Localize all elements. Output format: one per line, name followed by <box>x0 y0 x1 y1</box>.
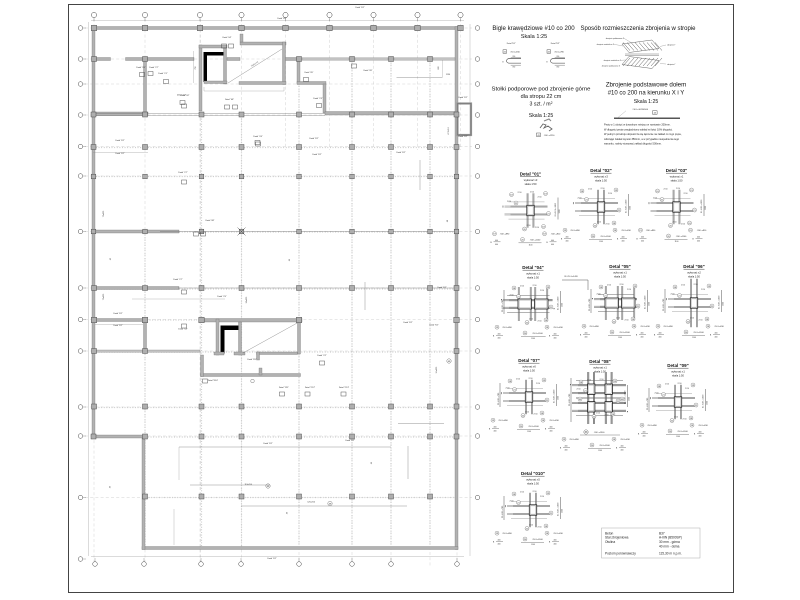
svg-text:2#10: 2#10 <box>597 222 601 224</box>
svg-text:2#10: 2#10 <box>518 192 522 194</box>
corridor wall x298 <box>297 59 300 84</box>
svg-text:1100: 1100 <box>527 431 531 433</box>
svg-text:2#10: 2#10 <box>627 289 631 291</box>
svg-text:91x250: 91x250 <box>436 366 438 373</box>
svg-text:Detal "K5": Detal "K5" <box>247 358 256 361</box>
svg-text:Pręty w 1 ułożyć w dowolnym mi: Pręty w 1 ułożyć w dowolnym miejscu w ro… <box>604 123 671 127</box>
svg-text:400: 400 <box>554 544 557 546</box>
svg-text:Detal "K2": Detal "K2" <box>551 42 560 45</box>
svg-text:2#10: 2#10 <box>600 379 604 381</box>
svg-text:21 #10 L=1200: 21 #10 L=1200 <box>624 390 626 404</box>
svg-text:2#10: 2#10 <box>699 320 703 322</box>
svg-text:400: 400 <box>551 244 554 246</box>
outer wall bottom <box>142 547 458 550</box>
svg-text:wykonać x5: wykonać x5 <box>526 478 540 482</box>
svg-text:400: 400 <box>494 431 497 433</box>
detail D05 <box>580 264 651 339</box>
column row y320 <box>91 317 459 322</box>
svg-text:2#10: 2#10 <box>538 321 542 323</box>
svg-text:Detal "010": Detal "010" <box>521 471 545 476</box>
detail D09 <box>638 363 709 438</box>
thin dim line y152.5 left <box>93 152 148 154</box>
svg-text:40 mm - dolna: 40 mm - dolna <box>659 545 680 549</box>
stair core 1 bottom wall <box>204 81 227 84</box>
svg-text:Detal "C6": Detal "C6" <box>136 66 145 69</box>
svg-text:2#10: 2#10 <box>694 284 698 286</box>
svg-text:1200: 1200 <box>629 206 631 210</box>
svg-text:2#10: 2#10 <box>510 295 514 297</box>
vertical grid lines <box>94 19 461 566</box>
column row y437 <box>91 434 459 439</box>
stair2 room right wall <box>298 319 301 354</box>
svg-text:400: 400 <box>659 337 662 339</box>
svg-text:2#10: 2#10 <box>620 284 624 286</box>
column row y59 <box>92 57 433 62</box>
svg-text:Sposób rozmieszczenia zbrojeni: Sposób rozmieszczenia zbrojenia w stropi… <box>580 26 696 32</box>
svg-text:2#10: 2#10 <box>683 419 687 421</box>
svg-text:#10 L=890: #10 L=890 <box>569 439 579 441</box>
svg-text:2#10: 2#10 <box>685 388 689 390</box>
long thin dim lines lower area <box>179 446 391 448</box>
circled ref numbers on plan <box>110 219 451 506</box>
svg-text:21 #10 L=1200: 21 #10 L=1200 <box>718 295 720 309</box>
room stub up <box>240 34 243 42</box>
svg-text:skala 1:50: skala 1:50 <box>614 275 626 279</box>
stair2 connector walls to left wall <box>95 319 145 322</box>
svg-text:#10 L=890: #10 L=890 <box>647 425 657 427</box>
svg-text:#10 L=890: #10 L=890 <box>570 230 580 232</box>
svg-text:Skala 1:25: Skala 1:25 <box>634 99 659 105</box>
svg-text:2#10: 2#10 <box>676 188 680 190</box>
extra bottom dim for D08 <box>580 430 620 435</box>
svg-text:#10 L=810: #10 L=810 <box>640 326 650 328</box>
svg-text:wykonać x1: wykonać x1 <box>671 370 685 374</box>
svg-text:Detal "K2": Detal "K2" <box>277 17 286 20</box>
stair2 interior wall y354 <box>257 352 298 355</box>
interior wall x200 <box>199 45 202 111</box>
svg-text:W długości pręta uwzględniono: W długości pręta uwzględniono zakład w i… <box>604 127 673 131</box>
stair core 1 black flight wall <box>204 52 225 56</box>
svg-text:Detal "K2": Detal "K2" <box>458 96 467 99</box>
svg-text:skala 1:50: skala 1:50 <box>671 179 683 183</box>
svg-text:Detal "C12": Detal "C12" <box>305 386 316 389</box>
svg-text:#10 L=10250/500: #10 L=10250/500 <box>632 109 649 111</box>
svg-text:50 #10 L=780: 50 #10 L=780 <box>502 505 504 518</box>
svg-text:50 #10 L=780: 50 #10 L=780 <box>663 298 665 311</box>
svg-text:Poziom porównawczy: Poziom porównawczy <box>605 552 636 556</box>
svg-text:21 #10 L=1200: 21 #10 L=1200 <box>625 199 627 213</box>
shaft on right wall <box>458 104 472 136</box>
svg-text:2#10: 2#10 <box>510 501 514 503</box>
svg-text:50 #10 L=780: 50 #10 L=780 <box>498 392 500 405</box>
svg-text:2#10: 2#10 <box>625 320 629 322</box>
svg-text:zbrojenie Y: zbrojenie Y <box>667 63 676 66</box>
wall y288 left segment <box>93 287 179 290</box>
svg-text:400: 400 <box>585 337 588 339</box>
interior wall x145 <box>144 58 147 116</box>
svg-text:21 #10 L=1200: 21 #10 L=1200 <box>553 389 555 403</box>
lower room notch <box>259 368 262 375</box>
svg-text:75x250: 75x250 <box>103 210 105 217</box>
wall step at row 436 <box>93 435 145 438</box>
svg-text:390: 390 <box>556 67 559 69</box>
svg-text:2#10: 2#10 <box>681 224 685 226</box>
svg-text:Detal "D10": Detal "D10" <box>208 379 219 382</box>
svg-text:21 #10 L=1200: 21 #10 L=1200 <box>701 199 703 213</box>
extra bar for D05 <box>562 276 588 290</box>
svg-text:#10 L=1100: #10 L=1100 <box>599 445 610 447</box>
beam wall y113 right part <box>325 112 455 116</box>
svg-text:Detal "K1": Detal "K1" <box>507 42 516 45</box>
svg-text:Detal "K2": Detal "K2" <box>309 137 318 140</box>
column row y499 <box>143 494 433 499</box>
svg-text:400: 400 <box>566 241 569 243</box>
svg-text:#10 L=810: #10 L=810 <box>620 439 630 441</box>
detail D06 <box>654 264 725 339</box>
stair2 black flight wall <box>221 326 240 331</box>
svg-text:#10 L=1100: #10 L=1100 <box>619 332 630 334</box>
svg-text:#10 L=810: #10 L=810 <box>698 425 708 427</box>
svg-text:#10 co 200 na kierunku X i Y: #10 co 200 na kierunku X i Y <box>608 91 685 97</box>
svg-text:2#10: 2#10 <box>577 389 581 391</box>
svg-text:50 #10 L=780: 50 #10 L=780 <box>647 397 649 410</box>
svg-text:2#10: 2#10 <box>533 285 537 287</box>
svg-text:Detal "08": Detal "08" <box>225 98 234 101</box>
stair core 1 right wall <box>224 48 227 84</box>
room wall top right of stair1 <box>240 42 286 45</box>
column row y288 <box>92 286 460 291</box>
svg-text:#10 L=810: #10 L=810 <box>549 420 559 422</box>
svg-text:26 #10 L=1420: 26 #10 L=1420 <box>564 276 578 278</box>
vertical hatch bands on slab strips <box>145 60 430 546</box>
svg-text:Detal "02": Detal "02" <box>590 168 612 173</box>
column row y115 <box>91 112 459 117</box>
svg-text:2#10: 2#10 <box>678 383 682 385</box>
svg-text:#10 L=890: #10 L=890 <box>646 230 656 232</box>
detail D01 <box>490 172 561 247</box>
svg-text:#10 L=890: #10 L=890 <box>502 327 512 329</box>
svg-text:2#10: 2#10 <box>673 222 677 224</box>
svg-text:2#10: 2#10 <box>540 290 544 292</box>
svg-text:Detal "K2": Detal "K2" <box>437 286 446 289</box>
bigiel detail K1 <box>502 42 521 69</box>
svg-text:2#10: 2#10 <box>655 393 659 395</box>
grid bubbles bottom row <box>93 558 460 566</box>
svg-text:2#10: 2#10 <box>605 415 609 417</box>
svg-text:zbrojenie rozdzielcze X: zbrojenie rozdzielcze X <box>604 59 622 62</box>
stair2 left wall <box>216 319 219 355</box>
detail D010 <box>493 471 564 546</box>
svg-text:2#10: 2#10 <box>538 197 542 199</box>
svg-text:#10 L=810: #10 L=810 <box>510 52 520 54</box>
svg-text:1100: 1100 <box>676 436 680 438</box>
svg-text:1200: 1200 <box>628 397 630 401</box>
svg-text:75x250: 75x250 <box>103 293 105 300</box>
svg-text:2#10: 2#10 <box>520 492 524 494</box>
svg-text:Detal "07": Detal "07" <box>518 358 540 363</box>
svg-text:50 #10 L=780: 50 #10 L=780 <box>569 393 571 406</box>
svg-text:#10 L=1100: #10 L=1100 <box>530 239 541 241</box>
svg-text:Detal "09": Detal "09" <box>364 69 373 72</box>
svg-text:#10 L=810: #10 L=810 <box>551 234 561 236</box>
detail D07 <box>489 358 560 433</box>
svg-text:2#10: 2#10 <box>664 189 668 191</box>
svg-text:Detal "06": Detal "06" <box>683 264 705 269</box>
svg-text:skala 1:50: skala 1:50 <box>595 179 607 183</box>
svg-text:1200: 1200 <box>561 509 563 513</box>
svg-text:Detal "C2": Detal "C2" <box>317 354 326 357</box>
svg-text:400: 400 <box>699 436 702 438</box>
svg-text:Detal "08": Detal "08" <box>206 219 215 222</box>
svg-text:2#10: 2#10 <box>506 388 510 390</box>
svg-text:Bigle krawędziowe #10 co 200: Bigle krawędziowe #10 co 200 <box>492 25 575 32</box>
svg-text:2#10: 2#10 <box>530 192 534 194</box>
svg-text:Detal "C1": Detal "C1" <box>158 72 167 75</box>
svg-text:#10 L=810: #10 L=810 <box>553 533 563 535</box>
svg-text:21 #10 L=1200: 21 #10 L=1200 <box>557 296 559 310</box>
svg-text:wliczając zakład wynosi 350mm,: wliczając zakład wynosi 350mm, a w przyp… <box>604 137 680 141</box>
svg-text:2#10: 2#10 <box>607 384 611 386</box>
svg-text:Otulina: Otulina <box>605 540 615 544</box>
svg-text:skala 1:50: skala 1:50 <box>688 275 700 279</box>
svg-text:1100: 1100 <box>531 544 535 546</box>
svg-text:#10 L=890: #10 L=890 <box>589 326 599 328</box>
stair2 mid wall <box>239 322 242 355</box>
svg-text:1100: 1100 <box>598 450 602 452</box>
grid bubbles right column <box>475 26 480 500</box>
svg-text:2#10: 2#10 <box>533 491 537 493</box>
svg-text:Stal zbrojeniowa: Stal zbrojeniowa <box>605 536 629 540</box>
svg-text:400: 400 <box>554 338 557 340</box>
svg-text:2#10: 2#10 <box>653 198 657 200</box>
svg-text:#10 L=810: #10 L=810 <box>714 326 724 328</box>
svg-text:2#10: 2#10 <box>588 189 592 191</box>
svg-text:zbrojenie podstawowe X: zbrojenie podstawowe X <box>602 64 621 67</box>
svg-text:1200: 1200 <box>705 206 707 210</box>
stair core 2 top wall <box>199 319 302 323</box>
svg-text:Detal "K2": Detal "K2" <box>396 151 405 154</box>
svg-text:47 2#12: 47 2#12 <box>448 127 450 135</box>
svg-text:125x250: 125x250 <box>307 502 316 504</box>
svg-text:1100: 1100 <box>618 337 622 339</box>
svg-text:2#10: 2#10 <box>674 417 678 419</box>
NE interior dim line <box>397 77 443 79</box>
svg-text:2#10: 2#10 <box>516 379 520 381</box>
column row y176 <box>91 174 459 179</box>
svg-text:400: 400 <box>622 241 625 243</box>
header: Zbrojenie podstawowe dolem <box>606 82 686 106</box>
margin dimension lines <box>88 22 90 556</box>
svg-text:Detal "K2": Detal "K2" <box>403 321 412 324</box>
svg-text:400: 400 <box>715 337 718 339</box>
svg-text:skala 1:50: skala 1:50 <box>525 182 537 186</box>
stair2 feet <box>214 352 224 355</box>
svg-text:400: 400 <box>643 436 646 438</box>
svg-text:#10 L=1100: #10 L=1100 <box>676 236 687 238</box>
svg-text:wykonać x3: wykonać x3 <box>524 178 538 182</box>
room right wall <box>283 42 286 85</box>
svg-text:21 #10 L=1200: 21 #10 L=1200 <box>702 394 704 408</box>
svg-text:Detal "K2": Detal "K2" <box>115 152 124 155</box>
svg-text:21 #10 L=1200: 21 #10 L=1200 <box>555 202 557 216</box>
svg-text:#10 L=1300: #10 L=1300 <box>594 432 606 434</box>
corridor wall y83 <box>297 82 326 85</box>
svg-text:#10 L=890: #10 L=890 <box>663 326 673 328</box>
svg-text:400: 400 <box>550 431 553 433</box>
svg-text:Detal "K2": Detal "K2" <box>429 324 438 327</box>
svg-text:zbrojenie rozdzielcze X: zbrojenie rozdzielcze X <box>597 43 615 46</box>
svg-text:1200: 1200 <box>561 303 563 307</box>
svg-text:Detal "C9": Detal "C9" <box>217 295 226 298</box>
svg-text:2#10: 2#10 <box>534 414 538 416</box>
svg-text:Detal "K2": Detal "K2" <box>267 557 276 560</box>
notes paragraph <box>604 123 682 146</box>
svg-text:2#10: 2#10 <box>536 383 540 385</box>
grid bubbles left column <box>78 26 86 562</box>
svg-text:Detal "05": Detal "05" <box>609 264 631 269</box>
svg-text:Detal "K2": Detal "K2" <box>345 439 354 442</box>
svg-text:W pełnym przekroju dopuszcza s: W pełnym przekroju dopuszcza się łączeni… <box>604 132 682 136</box>
outer wall lower-left vertical <box>142 436 145 550</box>
svg-text:2#10: 2#10 <box>540 496 544 498</box>
plan detail labels <box>113 6 467 560</box>
rotated dim texts on plan <box>103 65 450 514</box>
svg-text:2#10: 2#10 <box>681 285 685 287</box>
svg-text:400: 400 <box>498 544 501 546</box>
svg-text:Skala 1:25: Skala 1:25 <box>529 113 554 119</box>
svg-text:2#10: 2#10 <box>529 319 533 321</box>
corridor wall x323 <box>323 84 326 113</box>
svg-text:1200: 1200 <box>557 396 559 400</box>
stair core 1 top wall <box>199 45 227 48</box>
svg-text:zbrojenie podstawowe X: zbrojenie podstawowe X <box>606 37 625 40</box>
svg-text:21 #10 L=1200: 21 #10 L=1200 <box>644 295 646 309</box>
svg-text:2#10: 2#10 <box>608 193 612 195</box>
beam wall y113 left part <box>93 112 149 116</box>
column row y28 (top wall) <box>91 25 463 30</box>
svg-text:#10 L=890: #10 L=890 <box>500 234 510 236</box>
svg-text:Detal "C3": Detal "C3" <box>313 97 322 100</box>
svg-text:#10 L=1100: #10 L=1100 <box>532 539 543 541</box>
svg-text:2#10: 2#10 <box>596 413 600 415</box>
svg-text:2#10: 2#10 <box>587 380 591 382</box>
lower room bottom wall y375 <box>201 374 301 377</box>
outer wall left <box>92 27 95 439</box>
svg-text:Detal "03": Detal "03" <box>666 168 688 173</box>
svg-text:2#10: 2#10 <box>701 289 705 291</box>
detail D03 <box>636 168 707 243</box>
svg-text:warunku, należy stosować zakła: warunku, należy stosować zakład długości… <box>604 142 662 146</box>
grid bubbles top row <box>91 12 463 21</box>
svg-text:zbrojenie Y: zbrojenie Y <box>667 44 676 47</box>
svg-text:Detal "C13": Detal "C13" <box>339 386 350 389</box>
svg-text:400: 400 <box>621 450 624 452</box>
svg-text:Detal "04": Detal "04" <box>522 265 544 270</box>
svg-text:wykonać x3: wykonać x3 <box>594 175 608 179</box>
materials table <box>602 528 701 558</box>
svg-text:wykonać x1: wykonać x1 <box>593 366 607 370</box>
svg-text:3 szt. / m2: 3 szt. / m2 <box>530 101 553 108</box>
detail D02 <box>561 168 632 243</box>
svg-text:#10 L=1250: #10 L=1250 <box>544 135 556 137</box>
svg-text:#10 L=1100: #10 L=1100 <box>528 426 539 428</box>
svg-text:400: 400 <box>641 337 644 339</box>
svg-text:Detal "01": Detal "01" <box>520 172 542 177</box>
plan detail marker boxes <box>140 44 357 396</box>
svg-text:#10 L=1100: #10 L=1100 <box>600 236 611 238</box>
svg-text:#10 L=1100: #10 L=1100 <box>693 332 704 334</box>
svg-text:30 mm - górna: 30 mm - górna <box>659 540 680 544</box>
svg-text:Detal "C7": Detal "C7" <box>178 171 187 174</box>
svg-text:#10 L=1100: #10 L=1100 <box>532 333 543 335</box>
svg-text:Detal "08": Detal "08" <box>589 359 611 364</box>
svg-text:Detal "K2": Detal "K2" <box>355 6 364 9</box>
svg-text:#10 L=810: #10 L=810 <box>621 230 631 232</box>
svg-text:wykonać x6: wykonać x6 <box>522 365 536 369</box>
svg-text:A-IIIN (B500SP): A-IIIN (B500SP) <box>659 536 682 540</box>
svg-text:115,30 m n.p.m.: 115,30 m n.p.m. <box>659 552 682 556</box>
outer wall right <box>455 27 458 550</box>
svg-text:#10 L=810: #10 L=810 <box>697 230 707 232</box>
svg-text:Zbrojenie podstawowe dołem: Zbrojenie podstawowe dołem <box>606 82 686 89</box>
isometric rebar arrangement sketch <box>597 37 677 69</box>
svg-text:90x250: 90x250 <box>246 296 248 303</box>
svg-text:Detal "05": Detal "05" <box>305 71 314 74</box>
svg-text:skala 1:50: skala 1:50 <box>527 276 539 280</box>
column row y408 <box>92 404 460 409</box>
svg-text:2#10: 2#10 <box>529 525 533 527</box>
svg-text:400: 400 <box>495 244 498 246</box>
diagonal of room (wiatrolap) <box>228 49 282 83</box>
svg-text:Detal "09": Detal "09" <box>667 363 689 368</box>
svg-text:1100: 1100 <box>675 241 679 243</box>
svg-text:2#10: 2#10 <box>597 294 601 296</box>
header: Stolki podporowe <box>492 87 592 120</box>
interior wall row y59 <box>93 58 455 61</box>
svg-text:2#10: 2#10 <box>665 384 669 386</box>
svg-text:400: 400 <box>498 338 501 340</box>
svg-text:1100: 1100 <box>599 241 603 243</box>
svg-text:wykonać x1: wykonać x1 <box>526 272 540 276</box>
svg-text:Detal "02": Detal "02" <box>181 94 190 97</box>
svg-text:2#10: 2#10 <box>578 198 582 200</box>
detail D08 <box>560 359 631 452</box>
outer wall top <box>92 27 458 30</box>
bigiel detail K2 <box>546 42 565 69</box>
svg-text:2#10: 2#10 <box>607 285 611 287</box>
svg-text:Detal "K2": Detal "K2" <box>115 139 124 142</box>
svg-text:390: 390 <box>512 67 515 69</box>
svg-text:#10 L=890: #10 L=890 <box>498 420 508 422</box>
svg-text:skala 1:50: skala 1:50 <box>523 369 535 373</box>
svg-text:2#10: 2#10 <box>684 193 688 195</box>
svg-text:2#10: 2#10 <box>520 286 524 288</box>
svg-text:1200: 1200 <box>648 302 650 306</box>
basic bottom bar <box>614 109 680 118</box>
hatch bands on slab strips <box>96 148 455 498</box>
svg-text:400: 400 <box>641 241 644 243</box>
svg-text:1100: 1100 <box>692 337 696 339</box>
svg-text:wykonać x1: wykonać x1 <box>613 271 627 275</box>
svg-text:wykonać x2: wykonać x2 <box>687 271 701 275</box>
svg-text:1200: 1200 <box>722 302 724 306</box>
wall y351 left <box>95 350 200 352</box>
svg-text:skala 1:50: skala 1:50 <box>527 482 539 486</box>
room bottom wall <box>239 82 286 85</box>
stool (stolek) sketch <box>537 119 556 137</box>
svg-text:2#10: 2#10 <box>525 412 529 414</box>
svg-text:2#10: 2#10 <box>616 318 620 320</box>
